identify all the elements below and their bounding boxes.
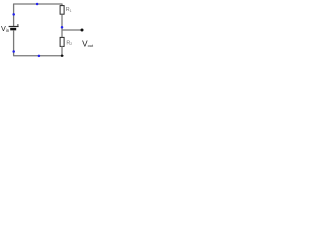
wire: Vout tap	[62, 29, 82, 31]
battery Vin bottom plate (-)	[10, 28, 16, 31]
node dot on left vertical wire	[12, 13, 15, 16]
resistor R1 body	[60, 6, 64, 15]
junction dot at bottom rail	[61, 55, 63, 57]
node dot on top wire	[36, 3, 39, 6]
terminal dot Vout	[81, 29, 84, 32]
wire: top rail from battery top to R1 top	[14, 4, 62, 26]
battery Vin top plate (+)	[9, 26, 19, 28]
wire: battery bottom to bottom-left corner	[14, 30, 64, 56]
svg-text:Vout: Vout	[82, 39, 94, 48]
svg-text:R2: R2	[66, 41, 72, 47]
resistor R2 body	[60, 37, 64, 46]
svg-text:Vin: Vin	[1, 24, 10, 33]
svg-text:R1: R1	[66, 7, 72, 13]
node dot above mid junction	[61, 26, 64, 29]
wire: R2 bottom to bottom rail	[61, 46, 63, 56]
node dot on bottom wire	[38, 55, 41, 58]
wire: R1 bottom to mid junction and on to R2 top	[61, 14, 63, 37]
node dot on lower-left wire	[12, 50, 15, 53]
battery plus sign	[17, 24, 19, 26]
